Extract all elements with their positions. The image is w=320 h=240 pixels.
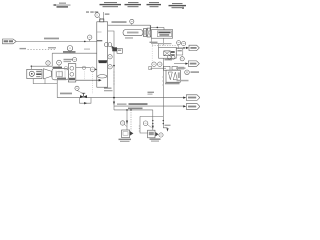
inlet flag F1 <box>3 39 17 44</box>
label block T5 <box>169 3 187 9</box>
instrument bubble b3 <box>159 133 163 137</box>
wire drop x127 <box>126 110 128 130</box>
wire drop x131 <box>130 110 132 131</box>
vent stub line <box>102 12 104 19</box>
wire drop x140 <box>140 116 148 133</box>
wire down leg <box>51 53 53 66</box>
wire mid-right header <box>150 67 166 69</box>
wire pump suction line <box>31 65 53 67</box>
sample box BB1 <box>122 130 130 138</box>
pump P1 box <box>27 69 42 78</box>
node junction <box>31 66 32 67</box>
wire upper transfer line <box>52 52 97 54</box>
label left of TI bubble <box>86 11 98 12</box>
wire main right riser <box>163 58 167 128</box>
instrument bubble before valve <box>75 86 79 90</box>
wire dotted standpipe <box>151 44 153 63</box>
label right of bubble <box>64 59 73 60</box>
wire line to flag F4 <box>174 63 186 65</box>
arrowhead into flag F3 <box>183 105 186 107</box>
wire feed arrow into column <box>76 79 99 81</box>
instrument bubble on overhead <box>130 19 134 23</box>
instrument bubble above F4 <box>180 57 184 61</box>
wire bypass loop <box>80 98 92 104</box>
reducer funnel <box>44 69 52 79</box>
instrument bubble on line <box>90 67 95 72</box>
outlet flag F5 <box>189 45 199 50</box>
inline box b <box>172 66 177 70</box>
wire bottoms piping <box>33 79 57 84</box>
reflux drum D1 <box>123 30 143 36</box>
column dark packing section <box>98 60 107 63</box>
instrument bubble b2 <box>143 121 148 126</box>
wire product line B <box>114 109 153 111</box>
chevrons at downcomer top <box>112 46 115 49</box>
wire cross header <box>140 115 163 117</box>
wire dashed utility line <box>152 45 178 47</box>
wire bubble stub <box>99 17 101 20</box>
exchanger box B1 <box>151 30 172 39</box>
dark box cluster <box>112 47 117 51</box>
instrument bubble TI top of column <box>95 13 100 18</box>
outlet flag F2 <box>186 95 200 101</box>
sample box BB2 <box>148 130 155 138</box>
valve on column top <box>100 19 104 22</box>
instrument bubble LI <box>46 61 50 65</box>
wire overhead line <box>108 24 151 26</box>
wire main feed line <box>16 40 97 42</box>
column C1 shell <box>97 22 108 87</box>
valve marks right of BB2 <box>155 132 158 136</box>
downcomer ticks <box>113 72 114 84</box>
column lens tray <box>98 75 107 78</box>
instrument bubbles pair mid-right <box>152 62 156 66</box>
labels on product lines <box>117 103 127 105</box>
exchanger box B2 <box>159 47 177 58</box>
filter unit FB <box>166 70 180 82</box>
outlet flag F4 <box>188 61 199 66</box>
wire hopper to column line <box>76 67 90 69</box>
wire dashed signal line <box>28 49 57 51</box>
wire product line A <box>114 105 185 107</box>
label on transfer line <box>63 51 76 53</box>
condenser fans <box>144 29 147 37</box>
instrument bubble on cylinder <box>57 60 62 65</box>
wire condenser header <box>150 25 152 28</box>
label block T4 <box>147 2 162 7</box>
column tick upper <box>97 31 102 33</box>
instrument bubble FI feed <box>88 35 92 39</box>
label dp <box>148 92 155 93</box>
instrument bubble PIC <box>67 46 72 51</box>
wire bottoms main line <box>57 97 185 99</box>
label block T1 top-left stream table <box>53 3 71 8</box>
small circles pair <box>167 56 171 60</box>
label block T3 <box>125 2 142 7</box>
wire reflux downcomer <box>108 31 114 110</box>
label right of vent <box>105 13 110 15</box>
label block T2 <box>100 2 122 7</box>
instrument bubble atop hopper <box>73 58 77 62</box>
outlet flag F3 <box>186 104 200 110</box>
instrument bubble b1 <box>120 121 124 125</box>
label above bottoms line <box>60 93 72 95</box>
arrowhead into flag F2 <box>183 97 186 99</box>
wire distillate line <box>176 47 186 49</box>
hopper unit box <box>68 64 76 82</box>
extruder cylinder <box>52 69 68 80</box>
label above cylinder <box>53 67 63 69</box>
node junction on feed line <box>84 41 86 43</box>
wire B1 drops <box>151 38 158 47</box>
aux box below circles <box>176 49 182 55</box>
instrument bubbles right of B1 <box>177 41 181 45</box>
label on feed line <box>44 38 59 40</box>
valve V1 control <box>80 95 87 98</box>
wire corner drop x152.8 <box>152 110 154 130</box>
column feed tick <box>97 40 102 42</box>
valve marks right of BB1 <box>130 131 134 136</box>
instrument bubbles right of column <box>104 43 108 47</box>
ticks on x140 <box>139 126 140 131</box>
instrument bubble right of FB <box>185 70 190 75</box>
bubble interior marks <box>47 15 185 136</box>
node junction product B <box>130 109 132 111</box>
inline box a <box>164 66 171 70</box>
valve small on line <box>82 66 85 69</box>
